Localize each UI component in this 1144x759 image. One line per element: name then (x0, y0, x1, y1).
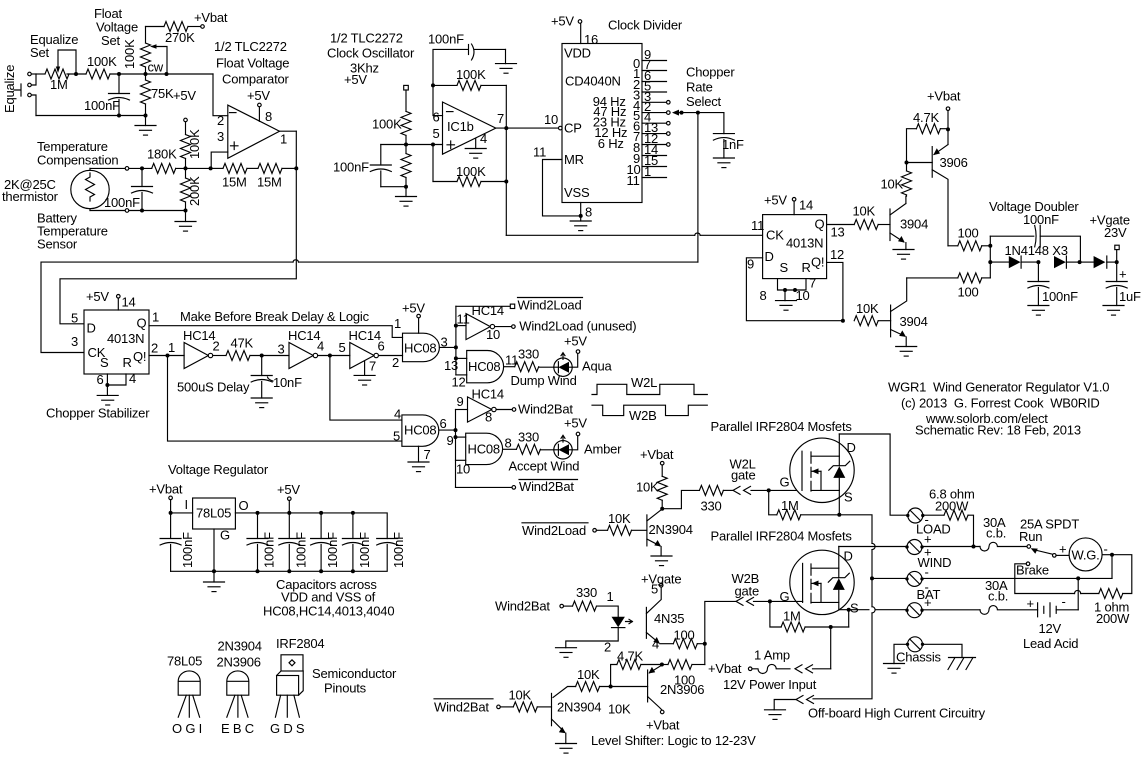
svg-text:7: 7 (424, 447, 431, 462)
wire (110, 73, 213, 75)
svg-text:Wind2Bat: Wind2Bat (434, 700, 489, 715)
resistor 4.7K (611, 665, 617, 687)
svg-text:Clock Oscillator: Clock Oscillator (327, 46, 415, 61)
svg-text:100nF: 100nF (104, 195, 140, 210)
pin 13 Q8 output stub (642, 133, 667, 135)
svg-text:1: 1 (280, 132, 287, 147)
pin 4 Q7 output stub (642, 122, 667, 124)
generator W.G. (1056, 554, 1069, 556)
svg-text:2N3906: 2N3906 (660, 682, 704, 697)
svg-text:Q: Q (137, 316, 147, 331)
wire to +Vbat (188, 26, 201, 28)
pin 1 Q12 output stub (642, 177, 667, 179)
node feedback junction (294, 166, 298, 170)
svg-text:1: 1 (152, 310, 159, 325)
svg-text:8: 8 (760, 288, 767, 303)
ground return power input (796, 696, 803, 704)
svg-text:G D S: G D S (270, 721, 305, 736)
wire source down (837, 513, 841, 517)
svg-text:+: + (1027, 596, 1034, 611)
svg-text:100nF: 100nF (391, 532, 406, 568)
svg-text:S: S (844, 490, 853, 505)
svg-text:9: 9 (747, 257, 754, 272)
pin 3 Q5 output stub (642, 101, 667, 103)
resistor 100 opto out (660, 643, 673, 645)
svg-text:100K: 100K (456, 164, 486, 179)
svg-text:10nF: 10nF (273, 375, 302, 390)
svg-text:14: 14 (799, 198, 813, 213)
svg-text:E B C: E B C (221, 721, 254, 736)
svg-text:3906: 3906 (940, 155, 968, 170)
svg-text:Dump Wind: Dump Wind (511, 373, 577, 388)
svg-text:4: 4 (480, 131, 487, 146)
svg-text:Off-board High Current Circuit: Off-board High Current Circuitry (808, 706, 986, 721)
svg-text:14: 14 (122, 295, 136, 310)
svg-text:7: 7 (809, 276, 816, 291)
svg-text:3904: 3904 (900, 217, 928, 232)
svg-text:G: G (220, 528, 230, 543)
svg-text:Wind2Bat: Wind2Bat (495, 599, 550, 614)
svg-text:100nF: 100nF (333, 160, 369, 175)
svg-text:Wind2Load (unused): Wind2Load (unused) (519, 319, 636, 334)
svg-text:Wind2Bat: Wind2Bat (518, 402, 573, 417)
wire (31, 73, 45, 75)
resistor 270K (146, 26, 165, 28)
svg-text:Compensation: Compensation (37, 153, 118, 168)
svg-text:2N3904: 2N3904 (649, 522, 693, 537)
svg-text:100K: 100K (122, 39, 137, 69)
svg-text:1: 1 (168, 340, 175, 355)
svg-text:+Vbat: +Vbat (646, 718, 680, 733)
capacitor 100nF decoupling 1 (256, 511, 260, 515)
resistor 47K (214, 355, 227, 357)
svg-text:Q: Q (815, 217, 825, 232)
svg-text:5: 5 (393, 429, 400, 444)
resistor 100K bias upper (401, 111, 411, 135)
svg-text:13: 13 (444, 358, 458, 373)
svg-text:Aqua: Aqua (582, 359, 613, 374)
capacitor 10nF delay (261, 356, 263, 376)
pushbutton equalize (31, 74, 36, 116)
S R ground strap (107, 374, 126, 385)
svg-text:HC08,HC14,4013,4040: HC08,HC14,4013,4040 (263, 604, 394, 619)
svg-text:R: R (123, 355, 132, 370)
svg-text:c.b.: c.b. (988, 589, 1008, 604)
svg-text:9: 9 (457, 394, 464, 409)
svg-text:10: 10 (456, 462, 470, 477)
svg-text:10K: 10K (509, 688, 532, 703)
AND gate HC08 #4 accept wind (454, 435, 458, 439)
resistor 330 accept (503, 448, 517, 450)
svg-text:4013N: 4013N (786, 236, 823, 251)
svg-text:78L05: 78L05 (196, 506, 231, 521)
wire comparator to 2nd 4013 CK (3KHz) (506, 234, 762, 236)
svg-text:4.7K: 4.7K (617, 649, 643, 664)
svg-text:100K: 100K (187, 129, 202, 159)
selected 47Hz tap arrow (672, 110, 679, 116)
bus vertical lower cluster (455, 410, 457, 488)
svg-text:Pinouts: Pinouts (324, 681, 367, 696)
svg-text:5: 5 (71, 311, 78, 326)
capacitor 100nF decoupling 2 (287, 511, 291, 515)
inverter HC14 #4 (454, 324, 458, 328)
wire comparator output down to D of first 4013 (60, 168, 296, 323)
svg-text:16: 16 (584, 32, 598, 47)
svg-text:+Vbat: +Vbat (927, 89, 961, 104)
svg-text:W2L: W2L (631, 375, 657, 390)
svg-text:1: 1 (394, 316, 401, 331)
pin 15 Q11 output stub (642, 166, 667, 168)
waveform W2L (592, 384, 707, 394)
node base 3906 (905, 161, 909, 165)
AND gate HC08 #1 (403, 333, 440, 362)
svg-text:HC08: HC08 (468, 359, 500, 374)
svg-text:+5V: +5V (277, 482, 300, 497)
transistor 3904 #2 (890, 305, 892, 337)
mosfet Q W2B (790, 550, 854, 614)
wire (67, 73, 86, 75)
resistor 100 pnp (662, 664, 668, 666)
svg-text:Parallel IRF2804 Mosfets: Parallel IRF2804 Mosfets (711, 419, 853, 434)
pin 6 Q3 output stub (642, 81, 667, 83)
svg-text:1M: 1M (781, 498, 799, 513)
svg-text:D: D (87, 321, 96, 336)
TO-92 case 78L05 (178, 671, 200, 695)
svg-text:Chassis: Chassis (896, 650, 942, 665)
svg-text:10K: 10K (636, 480, 659, 495)
wire 47Hz down to first 4013 CK (697, 113, 699, 263)
svg-text:9: 9 (447, 433, 454, 448)
svg-text:Accept Wind: Accept Wind (509, 459, 580, 474)
base wire 3906 (600, 686, 648, 688)
svg-text:+5V: +5V (564, 334, 587, 349)
resistor 10K collector q1 (902, 171, 912, 195)
svg-text:4013N: 4013N (107, 331, 144, 346)
svg-text:11: 11 (505, 353, 518, 368)
resistor 180K (152, 163, 176, 173)
svg-text:HC14: HC14 (288, 328, 320, 343)
resistor 10K interstage (576, 682, 600, 692)
pin 5 Q4 output stub (642, 91, 667, 93)
mosfet Q W2L (790, 438, 854, 502)
bus vertical upper cluster (455, 306, 457, 375)
svg-text:11: 11 (751, 218, 764, 233)
AND gate HC08 #2 dump wind (454, 356, 458, 360)
svg-text:+: + (1119, 267, 1126, 282)
op-amp U1a comparator triangle (228, 105, 280, 158)
capacitor 100nF equalize (118, 74, 120, 94)
svg-text:W2B: W2B (629, 408, 657, 423)
pin 9 Q1 output stub (642, 60, 667, 62)
svg-text:gate: gate (731, 468, 756, 483)
svg-text:10K: 10K (881, 177, 904, 192)
svg-text:330: 330 (518, 430, 539, 445)
ground q1 (905, 243, 907, 250)
svg-text:+5V: +5V (247, 88, 270, 103)
svg-text:7: 7 (369, 359, 376, 374)
svg-text:10: 10 (486, 327, 500, 342)
wire bottom rail (36, 115, 146, 117)
resistor 1M w2b (770, 601, 781, 627)
svg-text:2: 2 (604, 640, 611, 655)
pin 2 Q6 output stub (642, 112, 667, 114)
resistor 4.7K (916, 124, 940, 134)
svg-text:500uS Delay: 500uS Delay (177, 380, 250, 395)
wire comparator pin2 drop (213, 74, 228, 116)
svg-text:Clock Divider: Clock Divider (608, 18, 683, 33)
terminal Wind2Bat (overline) (456, 486, 513, 488)
terminal equalize input (28, 72, 32, 76)
svg-text:4: 4 (394, 407, 401, 422)
resistor 15M first (211, 167, 223, 169)
svg-text:Set: Set (101, 33, 121, 48)
wire input (171, 512, 193, 514)
svg-text:D: D (765, 249, 774, 264)
wire D loop from Q! (746, 258, 843, 321)
svg-text:8: 8 (485, 410, 492, 425)
svg-text:8: 8 (265, 109, 272, 124)
svg-text:O: O (239, 498, 249, 513)
ground 1nF (713, 158, 734, 168)
svg-text:4: 4 (317, 339, 324, 354)
pot wiper cw (153, 47, 167, 75)
svg-text:100K: 100K (456, 67, 486, 82)
chassis earth 3-prong (923, 644, 962, 657)
svg-text:+5V: +5V (764, 193, 787, 208)
S R ground strap (778, 279, 807, 290)
svg-text:1M: 1M (783, 609, 801, 624)
svg-text:VDD: VDD (564, 46, 591, 61)
transistor 3904 #1 (889, 209, 891, 241)
top rail (flying cap) (990, 236, 1080, 262)
svg-text:Sensor: Sensor (37, 237, 78, 252)
svg-text:S: S (100, 355, 109, 370)
svg-text:1uF: 1uF (1119, 289, 1141, 304)
svg-text:100nF: 100nF (1023, 212, 1059, 227)
svg-text:MR: MR (564, 152, 584, 167)
svg-text:+Vbat: +Vbat (640, 447, 674, 462)
svg-text:WIND: WIND (918, 555, 952, 570)
svg-text:2: 2 (217, 113, 224, 128)
pin 14 Q10 output stub (642, 155, 667, 157)
svg-text:100K: 100K (372, 117, 402, 132)
phototransistor 4N35 (645, 607, 647, 638)
svg-text:4: 4 (129, 371, 136, 386)
svg-text:WGR1 Wind Generator Regulator: WGR1 Wind Generator Regulator V1.0 (888, 380, 1109, 395)
svg-text:+Vbat: +Vbat (194, 10, 228, 25)
svg-text:2N3906: 2N3906 (217, 655, 261, 670)
svg-text:6: 6 (440, 416, 447, 431)
potentiometer 1M (45, 69, 69, 79)
svg-text:3: 3 (71, 334, 78, 349)
bottom rail (171, 545, 388, 572)
resistor 75K (141, 80, 151, 104)
svg-text:1: 1 (644, 164, 651, 179)
svg-text:+5V: +5V (402, 301, 425, 316)
resistor 330 opto (564, 605, 573, 607)
pin4 ground stub (475, 139, 477, 149)
svg-text:4: 4 (652, 637, 659, 652)
chassis connector (906, 637, 924, 652)
capacitor 100nF osc (380, 145, 382, 166)
svg-text:HC08: HC08 (404, 341, 436, 356)
svg-text:Schematic Rev: 18 Feb, 2013: Schematic Rev: 18 Feb, 2013 (915, 423, 1081, 438)
svg-text:+5V: +5V (564, 416, 587, 431)
svg-text:Rate: Rate (686, 80, 713, 95)
diode D2 (1054, 256, 1066, 268)
svg-text:75K: 75K (151, 86, 174, 101)
svg-text:11: 11 (533, 145, 546, 160)
resistor 100K feedback top (433, 84, 457, 86)
wire pin3 input (211, 152, 228, 168)
svg-text:100nF: 100nF (180, 532, 195, 568)
IC 4013N #2 box (763, 215, 827, 279)
G pin ground (213, 529, 215, 582)
svg-text:+5V: +5V (344, 72, 367, 87)
IC 4013N flip-flop box (84, 310, 149, 374)
node junction (117, 72, 121, 76)
svg-text:2: 2 (151, 341, 158, 356)
svg-text:47K: 47K (231, 336, 254, 351)
svg-text:6: 6 (378, 339, 385, 354)
opto LED (612, 617, 625, 627)
svg-text:Chopper: Chopper (686, 65, 735, 80)
svg-text:200W: 200W (935, 499, 969, 514)
svg-text:11: 11 (457, 312, 470, 327)
terminal +Vbat chopper (946, 107, 950, 111)
IC CD4040N box (562, 44, 642, 203)
svg-text:IC1b: IC1b (447, 119, 474, 134)
svg-text:7: 7 (497, 111, 504, 126)
capacitor 1nF (723, 113, 725, 134)
svg-text:12: 12 (452, 375, 466, 390)
svg-text:100nF: 100nF (293, 532, 308, 568)
svg-text:VDD and VSS of: VDD and VSS of (281, 590, 376, 605)
svg-text:10K: 10K (853, 204, 876, 219)
svg-text:HC08: HC08 (468, 442, 500, 457)
pin 8 VSS ground (580, 203, 582, 222)
svg-text:Q!: Q! (811, 255, 824, 270)
svg-text:15M: 15M (257, 175, 282, 190)
thermistor 2K@25C (71, 170, 109, 208)
TO-92 case 2N3904/06 (227, 671, 249, 695)
svg-text:330: 330 (576, 585, 597, 600)
svg-text:S: S (850, 601, 859, 616)
ground w2l q (660, 547, 662, 557)
svg-text:78L05: 78L05 (167, 654, 202, 669)
svg-text:Semiconductor: Semiconductor (312, 666, 397, 681)
svg-text:CK: CK (766, 228, 784, 243)
svg-text:6: 6 (97, 372, 104, 387)
svg-text:1/2 TLC2272: 1/2 TLC2272 (214, 39, 287, 54)
resistor 100K divider (181, 135, 191, 159)
svg-text:200W: 200W (1096, 611, 1130, 626)
svg-text:100nF: 100nF (84, 98, 120, 113)
svg-text:1/2 TLC2272: 1/2 TLC2272 (330, 31, 403, 46)
svg-text:12: 12 (830, 247, 844, 262)
svg-text:O G I: O G I (172, 721, 202, 736)
svg-text:-: - (1062, 594, 1066, 609)
svg-text:13: 13 (831, 225, 845, 240)
svg-text:Brake: Brake (1016, 563, 1049, 578)
pin 7 Q2 output stub (642, 70, 667, 72)
svg-text:HC14: HC14 (349, 328, 381, 343)
resistor 15M second (247, 167, 258, 169)
svg-text:Wind2Load: Wind2Load (518, 298, 582, 313)
svg-text:25A SPDT: 25A SPDT (1020, 517, 1079, 532)
resistor 10K w2l base (596, 529, 607, 531)
svg-text:5: 5 (433, 126, 440, 141)
terminal Wind2Load (overline) (456, 305, 510, 307)
svg-text:Amber: Amber (584, 441, 622, 456)
transistor 2N3904 level (551, 693, 553, 725)
svg-text:180K: 180K (147, 147, 177, 162)
svg-text:CP: CP (564, 121, 582, 136)
brake contact (1026, 562, 1030, 566)
potentiometer 100K float set (vertical) (145, 27, 147, 44)
IC 78L05 (193, 498, 236, 529)
svg-text:-: - (925, 565, 929, 580)
resistor 100 upper (948, 245, 958, 247)
svg-text:HC08: HC08 (404, 422, 436, 437)
svg-text:G: G (780, 475, 790, 490)
svg-text:Set: Set (30, 45, 50, 60)
svg-text:Parallel IRF2804 Mosfets: Parallel IRF2804 Mosfets (711, 529, 853, 544)
svg-text:4.7K: 4.7K (913, 110, 939, 125)
wire thermistor top (89, 168, 91, 170)
svg-text:270K: 270K (165, 30, 195, 45)
svg-text:(c) 2013 G. Forrest Cook WB0: (c) 2013 G. Forrest Cook WB0RID (901, 396, 1100, 411)
body diode W2L (833, 466, 845, 478)
svg-text:Equalize: Equalize (2, 65, 17, 113)
resistor 10K base (500, 706, 513, 708)
svg-text:1 Amp: 1 Amp (754, 648, 790, 663)
svg-text:thermistor: thermistor (2, 189, 59, 204)
capacitor 100nF decoupling 4 (351, 511, 355, 515)
transistor 2N3904 w2l (646, 515, 648, 546)
svg-text:+Vbat: +Vbat (708, 661, 742, 676)
svg-text:+5V: +5V (86, 289, 109, 304)
svg-text:Wind2Load: Wind2Load (522, 523, 586, 538)
transistor 3906 PNP (931, 147, 933, 178)
capacitor 100nF input (160, 539, 181, 546)
pin7 ground HC08#3 (418, 446, 420, 462)
svg-text:W.G.: W.G. (1072, 548, 1100, 563)
svg-text:Chopper Stabilizer: Chopper Stabilizer (46, 406, 150, 421)
fuse 1 Amp (752, 664, 790, 673)
comparator output wire (280, 130, 297, 132)
svg-text:HC14: HC14 (472, 303, 504, 318)
svg-text:2N3904: 2N3904 (218, 639, 262, 654)
svg-text:Comparator: Comparator (222, 72, 290, 87)
svg-text:LOAD: LOAD (916, 522, 951, 537)
output pin3 wire (439, 346, 456, 348)
svg-text:Level Shifter: Logic to 12-23V: Level Shifter: Logic to 12-23V (591, 733, 756, 748)
svg-text:100nF: 100nF (357, 532, 372, 568)
svg-text:330: 330 (701, 499, 722, 514)
svg-text:Wind2Bat: Wind2Bat (519, 479, 574, 494)
ground float divider (145, 116, 147, 126)
resistor 200K divider (181, 178, 191, 202)
svg-text:1N4148 X3: 1N4148 X3 (1005, 243, 1068, 258)
svg-text:10K: 10K (608, 702, 631, 717)
svg-text:3: 3 (217, 129, 224, 144)
svg-text:15M: 15M (222, 175, 247, 190)
svg-text:23V: 23V (1104, 225, 1127, 240)
diode D3 (1080, 261, 1094, 263)
ground fb cap (505, 49, 507, 63)
output pin6 (439, 429, 456, 431)
